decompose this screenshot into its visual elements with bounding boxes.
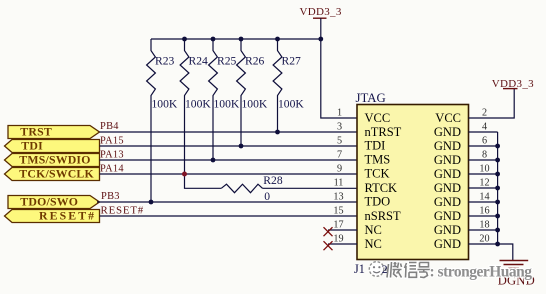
junction VDD stem/top bus	[318, 37, 323, 42]
wire TDI row	[100, 145, 358, 147]
svg-text:100K: 100K	[152, 98, 178, 111]
pin 10 stub wire	[469, 173, 498, 175]
junction pin16/GND bus	[495, 214, 500, 219]
pin 6 stub wire	[469, 145, 498, 147]
junction pin18/GND bus	[495, 228, 500, 233]
svg-text:GND: GND	[434, 195, 461, 209]
pin 17 NC stub	[328, 229, 357, 231]
svg-text:nSRST: nSRST	[365, 209, 401, 223]
resistor R27	[273, 39, 304, 132]
svg-text:R25: R25	[217, 55, 237, 68]
wire TDO row	[97, 201, 357, 203]
port flag RESET#	[5, 209, 100, 223]
svg-text:R23: R23	[155, 55, 175, 68]
svg-text:PA15: PA15	[100, 135, 124, 146]
junction pin12/GND bus	[495, 186, 500, 191]
power VDD3_3 right symbol	[492, 78, 534, 90]
svg-text:7: 7	[337, 150, 342, 161]
svg-text:1: 1	[337, 108, 342, 119]
svg-text:5: 5	[337, 136, 342, 147]
pin 12 stub wire	[469, 187, 498, 189]
svg-text:GND: GND	[434, 167, 461, 181]
port flag TDO/SWO	[8, 195, 100, 209]
svg-text:17: 17	[333, 220, 343, 231]
svg-text:14: 14	[479, 192, 489, 203]
junction pin6/GND bus	[495, 144, 500, 149]
junction R26/TDI wire	[239, 144, 244, 149]
svg-text:GND: GND	[434, 139, 461, 153]
resistor R28 value 0	[221, 174, 283, 203]
svg-text:20: 20	[479, 234, 489, 245]
junction (red) at TCK/R24/R28	[182, 172, 187, 177]
svg-text:PB3: PB3	[101, 191, 120, 202]
junction R24/top bus	[182, 37, 187, 42]
svg-text:11: 11	[334, 178, 344, 189]
svg-text:100K: 100K	[214, 98, 240, 111]
svg-text:R24: R24	[189, 55, 209, 68]
svg-text:GND: GND	[434, 181, 461, 195]
no-connect X pin19	[324, 241, 333, 250]
no-connect X pin17	[324, 227, 333, 236]
junction pin8/GND bus	[495, 158, 500, 163]
power VDD3_3 top symbol	[300, 6, 342, 39]
svg-text:100K: 100K	[185, 98, 211, 111]
svg-text:2: 2	[382, 263, 388, 276]
wire TCK branch to R28	[185, 174, 222, 188]
svg-text:TDO/SWO: TDO/SWO	[20, 195, 78, 209]
svg-text:RESET#: RESET#	[39, 209, 96, 223]
watermark icon circle	[369, 262, 384, 277]
svg-text:10: 10	[479, 164, 489, 175]
wire VDD to pin1	[321, 39, 357, 118]
pin names left column	[365, 111, 402, 251]
svg-text:NC: NC	[365, 237, 382, 251]
svg-text:: strongerHuang: : strongerHuang	[430, 263, 533, 280]
svg-text:19: 19	[333, 234, 343, 245]
wire R28 to pin 11 RTCK	[263, 187, 358, 189]
port flag TDI	[5, 139, 100, 153]
pin numbers right	[479, 108, 489, 245]
ground DGND symbol	[498, 261, 535, 288]
pin 19 NC stub	[328, 243, 357, 245]
junction R25/top bus	[211, 37, 216, 42]
svg-text:100K: 100K	[242, 98, 268, 111]
svg-text:TMS: TMS	[365, 152, 391, 166]
svg-text:TCK: TCK	[365, 166, 390, 180]
wire top pull-up bus	[151, 38, 321, 40]
svg-text:R28: R28	[263, 174, 283, 187]
svg-text:PA13: PA13	[100, 150, 124, 161]
svg-text:TDO: TDO	[365, 194, 391, 208]
svg-text:GND: GND	[434, 153, 461, 167]
junction R27/top bus	[275, 37, 280, 42]
svg-text:TMS/SWDIO: TMS/SWDIO	[19, 153, 90, 167]
junction pin14/GND bus	[495, 200, 500, 205]
wire TCK row	[100, 173, 358, 175]
svg-text:R27: R27	[282, 55, 302, 68]
junction R26/top bus	[239, 37, 244, 42]
svg-text:nTRST: nTRST	[365, 125, 402, 139]
svg-text:GND: GND	[434, 209, 461, 223]
resistor R23	[147, 39, 178, 202]
pin 4 stub wire	[469, 131, 498, 133]
junction R25/TMS wire	[211, 158, 216, 163]
svg-text:100K: 100K	[278, 98, 304, 111]
junction pin20/GND bus	[495, 242, 500, 247]
svg-text:R26: R26	[245, 55, 265, 68]
connector J1 JTAG box	[357, 105, 469, 260]
svg-text:15: 15	[333, 206, 343, 217]
svg-text:JTAG: JTAG	[356, 91, 386, 105]
svg-text:TCK/SWCLK: TCK/SWCLK	[19, 167, 94, 181]
svg-text:NC: NC	[365, 223, 382, 237]
svg-text:GND: GND	[434, 125, 461, 139]
svg-text:VDD3_3: VDD3_3	[300, 6, 342, 18]
svg-text:VCC: VCC	[365, 111, 391, 125]
svg-text:13: 13	[333, 192, 343, 203]
svg-text:VCC: VCC	[435, 111, 461, 125]
junction R23/TDO wire	[149, 200, 154, 205]
svg-text:8: 8	[482, 150, 487, 161]
svg-text:TDI: TDI	[365, 138, 386, 152]
svg-text:PA14: PA14	[100, 164, 124, 175]
wire TMS row	[100, 159, 358, 161]
svg-text:GND: GND	[434, 223, 461, 237]
watermark chinese glyphs	[386, 262, 431, 278]
pin names right column	[434, 111, 461, 251]
wire TRST row	[100, 131, 358, 133]
pin 8 stub wire	[469, 159, 498, 161]
pin 18 stub wire	[469, 229, 498, 231]
wire pin2 to VDD	[469, 89, 515, 118]
pin 16 stub wire	[469, 215, 498, 217]
pin 20 stub wire	[469, 243, 498, 245]
svg-text:RESET#: RESET#	[101, 204, 145, 216]
svg-text:3: 3	[337, 122, 342, 133]
port flag TRST	[8, 125, 100, 139]
pin numbers left	[333, 108, 343, 245]
resistor R24	[180, 39, 211, 174]
svg-text:18: 18	[479, 220, 489, 231]
port flag TCK/SWCLK	[5, 167, 100, 181]
svg-text:6: 6	[482, 136, 487, 147]
svg-text:TDI: TDI	[21, 139, 43, 153]
svg-text:J1: J1	[354, 262, 365, 276]
resistor R26	[237, 39, 268, 146]
svg-text:4: 4	[482, 122, 487, 133]
wire RESET row	[100, 215, 358, 217]
svg-text:PB4: PB4	[100, 121, 119, 132]
junction R27/nTRST wire	[275, 130, 280, 135]
wire GND bus vertical	[498, 132, 513, 260]
svg-text:12: 12	[479, 178, 489, 189]
svg-text:RTCK: RTCK	[365, 181, 398, 195]
junction pin10/GND bus	[495, 172, 500, 177]
svg-text:16: 16	[479, 206, 489, 217]
port flag TMS/SWDIO	[5, 153, 100, 167]
svg-text:2: 2	[482, 108, 487, 119]
svg-text:0: 0	[264, 190, 270, 203]
svg-text:GND: GND	[434, 237, 461, 251]
svg-text:VDD3_3: VDD3_3	[492, 78, 534, 90]
svg-text:9: 9	[337, 164, 342, 175]
resistor R25	[209, 39, 240, 160]
svg-text:TRST: TRST	[20, 125, 52, 139]
pin 14 stub wire	[469, 201, 498, 203]
